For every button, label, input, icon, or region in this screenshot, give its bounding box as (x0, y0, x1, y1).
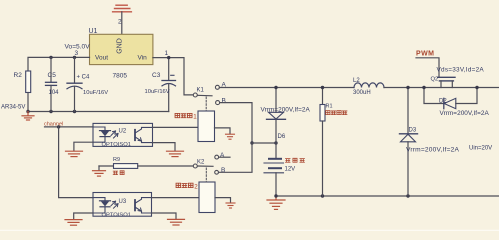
dashed link K1 to relay RL1 (205, 97, 207, 111)
power symbol (red, above U1 GND pin) (113, 5, 132, 12)
switch K2 (193, 152, 225, 174)
wire relay RL1 to ground (215, 128, 231, 134)
wire U2 collector to relay RL1 (153, 126, 199, 128)
svg-text:Vout: Vout (95, 55, 108, 62)
wire Vout rail (28, 57, 90, 71)
ground (U3 emitter, red) (168, 219, 185, 225)
svg-text:OPTOISO1: OPTOISO1 (102, 142, 132, 148)
svg-text:K2: K2 (197, 160, 205, 166)
svg-text:PWM: PWM (416, 51, 434, 58)
svg-text:D3: D3 (409, 128, 417, 134)
ground (below U3 LED, red) (65, 220, 82, 226)
svg-text:300uH: 300uH (353, 90, 371, 96)
wire relay RL2 to ground (215, 198, 231, 203)
resistor R9 (浴灯) (99, 157, 193, 175)
svg-text:K1: K1 (197, 88, 205, 94)
svg-text:12V: 12V (285, 166, 296, 172)
node dot C4 top (73, 56, 76, 59)
optocoupler U3 (93, 193, 152, 219)
svg-text:GND: GND (116, 38, 123, 54)
svg-text:Vds=33V,Id=2A: Vds=33V,Id=2A (437, 67, 485, 74)
svg-text:C5: C5 (48, 72, 57, 79)
capacitor C5 (46, 57, 60, 111)
wire K2 A stub (219, 156, 230, 158)
wire bus after L2 (384, 87, 499, 89)
capacitor C4 (electrolytic) (67, 57, 108, 111)
battery 蓄电池 12V (264, 143, 304, 196)
svg-text:10uF/16V: 10uF/16V (83, 90, 108, 96)
wire U2 cathode to ground (74, 142, 93, 151)
dashed link K2 to relay RL2 (205, 168, 207, 182)
svg-text:A: A (220, 152, 225, 159)
svg-text:2: 2 (194, 183, 198, 190)
svg-text:Vrrm=200V,If=2A: Vrrm=200V,If=2A (406, 147, 459, 154)
node dots on ground rail (26, 110, 29, 113)
svg-text:C3: C3 (152, 72, 161, 79)
svg-text:2: 2 (118, 19, 122, 26)
regulator U1 7805 (89, 28, 153, 80)
node B junction (250, 141, 253, 144)
ground (left of R9, red) (93, 166, 106, 176)
wire Vin rail to K1 (153, 58, 193, 95)
svg-text:+ C4: + C4 (77, 75, 91, 81)
svg-text:U3: U3 (119, 199, 127, 205)
transistor Q2 (MOSFET) (431, 67, 485, 88)
svg-text:1: 1 (165, 50, 169, 57)
ground (relay RL2, red, small) (226, 203, 235, 208)
wire channel branch down to U3 (59, 127, 93, 198)
svg-text:Vin: Vin (138, 55, 148, 62)
optocoupler U2 (93, 123, 153, 148)
svg-text:R1: R1 (326, 104, 333, 110)
capacitor C3 (electrolytic) (145, 58, 176, 112)
wire K1 B down to battery node (220, 103, 252, 143)
svg-text:7805: 7805 (113, 73, 128, 80)
ground symbol (below left rail) (22, 112, 34, 121)
wire U3 collector to relay RL2 (152, 197, 200, 199)
wire PWM to gate (416, 58, 439, 78)
node dot C5 top (49, 56, 52, 59)
wire node to battery top (252, 142, 276, 144)
svg-text:10uF/16V: 10uF/16V (145, 89, 170, 95)
svg-text:104: 104 (49, 90, 60, 96)
ground (below U2 LED, red) (66, 151, 83, 156)
svg-text:B: B (222, 97, 226, 104)
resistor R1 (步进电机) (320, 88, 347, 197)
wire K2 B up to battery node (219, 143, 253, 172)
svg-text:Uin=20V: Uin=20V (469, 145, 492, 151)
svg-text:U1: U1 (89, 28, 98, 35)
inductor L2 (353, 78, 384, 96)
resistor R2 (14, 71, 31, 112)
wire channel to U2 (45, 126, 94, 128)
svg-text:D6: D6 (278, 134, 286, 140)
svg-text:1: 1 (193, 114, 197, 121)
svg-text:OPTOISO1: OPTOISO1 (102, 212, 132, 218)
svg-text:R2: R2 (14, 72, 23, 79)
svg-text:Vrrm=200V,If=2A: Vrrm=200V,If=2A (440, 110, 490, 117)
wire ground rail (28, 111, 169, 113)
wire U3 emitter to ground (152, 213, 177, 219)
wire bottom bus (276, 195, 499, 197)
node dot pin1 / C3 (167, 56, 170, 59)
relay RL2 (继电器2) (176, 182, 215, 213)
switch K1 (193, 82, 226, 105)
earth ground (battery, red) (267, 196, 285, 209)
diode D2 (424, 88, 489, 118)
wire main bus (A to right edge) (219, 87, 354, 89)
wire U3 cathode to ground (74, 213, 93, 219)
ground (relay RL1, red, small) (226, 134, 235, 139)
relay RL1 (继电器1) (175, 111, 214, 142)
wire U2 emitter to ground (153, 143, 176, 151)
ground (U2 emitter, red) (167, 151, 184, 156)
svg-text:U2: U2 (119, 129, 127, 135)
svg-text:AR34-5V: AR34-5V (1, 105, 25, 111)
wire U1 GND pin to power symbol (121, 12, 123, 35)
diode D6 (261, 88, 311, 144)
diode D3 (400, 88, 460, 197)
svg-text:R9: R9 (113, 157, 120, 163)
